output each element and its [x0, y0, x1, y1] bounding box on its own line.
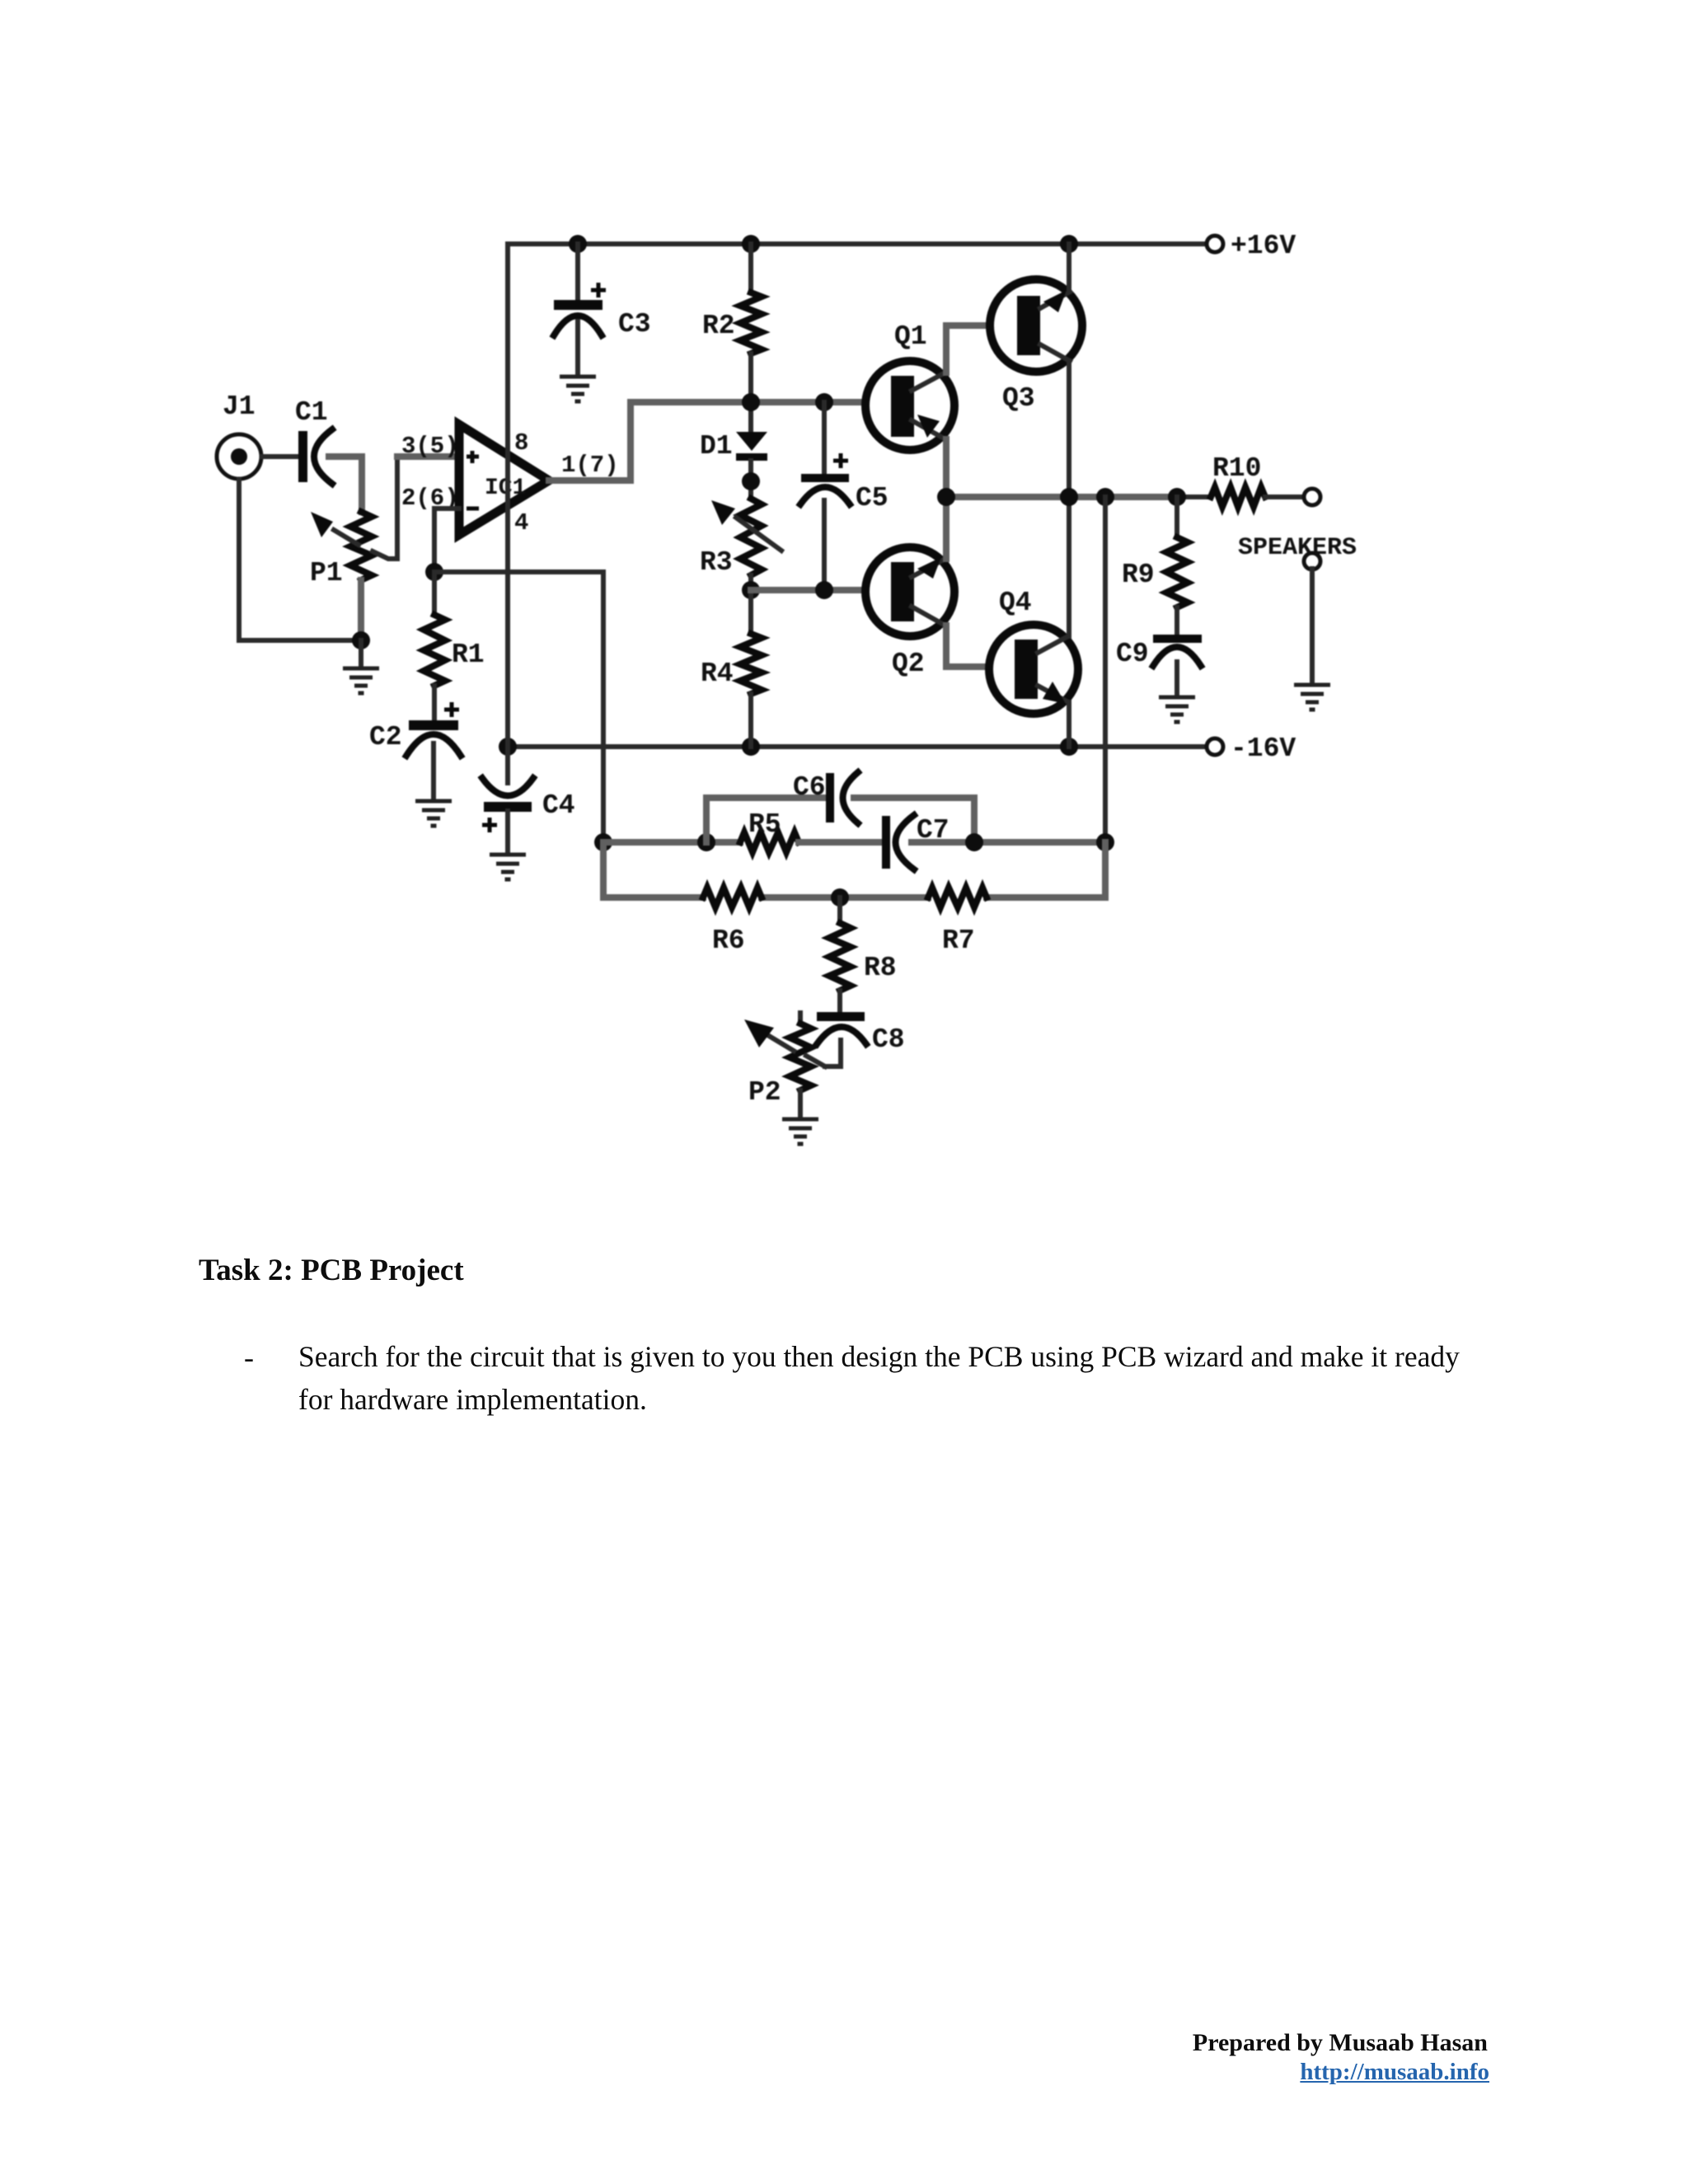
- capacitor C5: [800, 402, 889, 590]
- resistor R10: [1211, 453, 1305, 507]
- svg-text:C2: C2: [369, 722, 402, 752]
- svg-text:C8: C8: [872, 1024, 905, 1055]
- svg-text:8: 8: [514, 429, 528, 457]
- ground P2: [782, 1119, 818, 1144]
- label SPEAKERS: [1238, 534, 1357, 562]
- svg-text:Q4: Q4: [999, 588, 1032, 618]
- resistor R6: [703, 888, 762, 956]
- wire Q2 base: [751, 587, 891, 593]
- wire R5 to C7: [799, 839, 883, 846]
- capacitor C7: [882, 815, 949, 869]
- node rail-C3: [569, 235, 587, 253]
- resistor R8: [829, 898, 897, 1013]
- node R6-R7: [831, 888, 849, 907]
- trimmer R3: [700, 499, 781, 590]
- node output feedback: [1096, 488, 1114, 506]
- wire -in to feedback: [434, 572, 603, 842]
- wire Q4 emitter: [1067, 702, 1071, 747]
- svg-text:+16V: +16V: [1231, 231, 1296, 261]
- op-amp IC1: [401, 424, 619, 537]
- capacitor C6: [793, 772, 858, 823]
- wire Q2 emitter to output: [943, 497, 949, 559]
- node rail-R4: [742, 738, 760, 756]
- potentiometer P1: [310, 512, 372, 588]
- node -in: [425, 563, 443, 581]
- svg-text:P1: P1: [310, 558, 343, 588]
- svg-text:R10: R10: [1212, 453, 1261, 484]
- svg-text:R2: R2: [702, 311, 735, 341]
- ground C4: [490, 855, 526, 879]
- svg-text:R3: R3: [700, 547, 733, 578]
- svg-text:C1: C1: [295, 397, 328, 428]
- node R3-R4: [742, 581, 760, 599]
- connector J1: [217, 391, 261, 479]
- svg-text:C4: C4: [542, 790, 575, 821]
- wire middle bus left: [603, 839, 740, 846]
- wire C1 to P1: [329, 457, 362, 512]
- svg-text:D1: D1: [700, 431, 733, 462]
- transistor Q3: [990, 279, 1082, 414]
- node feedback output: [1096, 833, 1114, 851]
- node rail-C4: [499, 738, 517, 756]
- resistor R4: [701, 590, 762, 747]
- wire Q3 collector to output: [1067, 361, 1071, 497]
- ground P1: [343, 668, 379, 693]
- svg-text:SPEAKERS: SPEAKERS: [1238, 534, 1357, 562]
- wire +16V rail: [508, 241, 1207, 246]
- terminal +16V: [1207, 231, 1296, 261]
- resistor R5: [740, 809, 799, 852]
- capacitor C8: [817, 1012, 905, 1066]
- svg-text:R4: R4: [701, 658, 734, 689]
- wire Q1 collector to Q3 base: [946, 326, 1017, 373]
- node bus-C6 left: [697, 833, 715, 851]
- wire -16V rail: [508, 744, 1207, 749]
- terminal speaker hot: [1304, 489, 1320, 505]
- wire IC1 -in: [434, 509, 459, 572]
- diode D1: [700, 431, 767, 499]
- svg-text:C9: C9: [1116, 639, 1149, 669]
- node C5 bottom: [815, 581, 833, 599]
- capacitor C4: [482, 747, 575, 854]
- heading: Task 2: [199, 1253, 464, 1288]
- svg-text:1(7): 1(7): [561, 452, 619, 479]
- terminal speaker return: [1304, 553, 1320, 684]
- node output Q3Q4: [1060, 488, 1078, 506]
- terminal -16V: [1207, 733, 1296, 764]
- potentiometer P2: [744, 1013, 825, 1118]
- node rail-Q4: [1060, 738, 1078, 756]
- footer: [824, 2029, 1488, 2057]
- wire lower bus: [603, 842, 1105, 898]
- svg-text:3(5): 3(5): [401, 433, 459, 460]
- wire Q4 collector to output: [1067, 497, 1071, 636]
- transistor Q4: [989, 588, 1078, 714]
- resistor R1: [424, 572, 485, 721]
- wire IC1 output: [549, 402, 891, 480]
- capacitor C2: [369, 702, 461, 800]
- svg-text:R1: R1: [452, 640, 485, 670]
- node IC-R2D1: [742, 393, 760, 411]
- svg-text:C5: C5: [856, 483, 889, 513]
- ground C3: [560, 377, 596, 401]
- svg-text:R8: R8: [864, 953, 897, 983]
- wire J1 ground return: [239, 480, 361, 640]
- bullet paragraph: [244, 1340, 254, 1375]
- node rail-Q3: [1060, 235, 1078, 253]
- wire P1 bottom: [358, 580, 364, 640]
- resistor R2: [702, 244, 762, 432]
- svg-text:C3: C3: [618, 309, 651, 340]
- wire Q1 emitter to output: [943, 439, 949, 497]
- capacitor C3: [554, 244, 651, 376]
- node P1-J1 ground: [352, 631, 370, 668]
- svg-text:J1: J1: [223, 391, 256, 422]
- ground speaker: [1294, 685, 1330, 710]
- capacitor C1: [295, 397, 332, 484]
- node output R9: [1168, 488, 1186, 506]
- resistor R7: [928, 888, 987, 956]
- wire C6 loop: [706, 798, 974, 842]
- node bus-C6 right: [965, 833, 983, 851]
- transistor Q2: [865, 547, 954, 679]
- node rail-R2: [742, 235, 760, 253]
- wire output to feedback bus: [1103, 497, 1108, 842]
- wire output bus: [946, 494, 1211, 500]
- svg-text:R7: R7: [942, 926, 975, 956]
- svg-text:R5: R5: [748, 809, 781, 840]
- svg-text:R9: R9: [1122, 560, 1155, 590]
- wire C7 to node: [912, 839, 1105, 846]
- svg-text:4: 4: [514, 509, 528, 537]
- wire Q3 emitter: [1067, 244, 1071, 292]
- node output Q1Q2: [937, 488, 955, 506]
- wire P1 wiper to IC+: [373, 457, 459, 559]
- resistor R9: [1122, 497, 1188, 635]
- node C5 top: [815, 393, 833, 411]
- svg-text:Q3: Q3: [1002, 383, 1035, 414]
- wire J1 to C1: [262, 454, 299, 459]
- svg-text:Q2: Q2: [892, 649, 925, 679]
- svg-text:-16V: -16V: [1231, 733, 1296, 764]
- wire IC1 power pins 8-4: [505, 244, 510, 747]
- svg-text:C6: C6: [793, 772, 826, 803]
- svg-text:R6: R6: [712, 926, 745, 956]
- svg-text:Q1: Q1: [894, 321, 927, 352]
- node feedback-in: [594, 833, 612, 851]
- ground C2: [415, 801, 452, 826]
- capacitor C9: [1116, 635, 1202, 696]
- transistor Q1: [865, 321, 954, 450]
- svg-text:P2: P2: [748, 1077, 781, 1108]
- wire Q2 collector to Q4 base: [946, 626, 1015, 667]
- ground C9: [1159, 697, 1195, 722]
